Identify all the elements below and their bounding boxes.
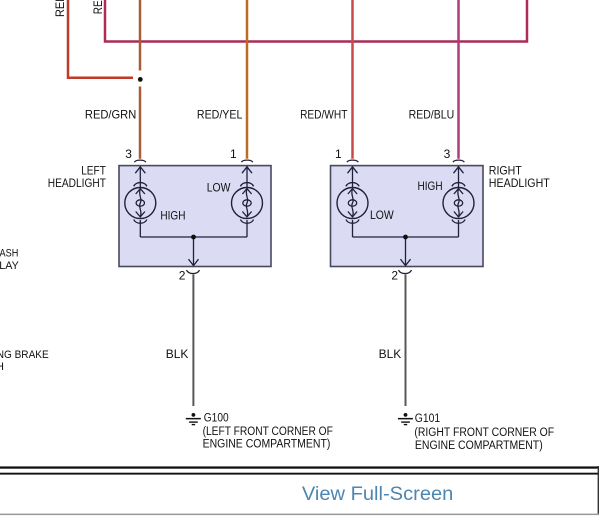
svg-text:RED: RED [91, 0, 105, 14]
svg-text:ASH: ASH [0, 247, 18, 259]
svg-text:HIGH: HIGH [160, 209, 185, 223]
svg-text:(LEFT FRONT CORNER OF: (LEFT FRONT CORNER OF [203, 426, 333, 438]
svg-text:1: 1 [230, 147, 237, 161]
svg-text:3: 3 [125, 147, 132, 161]
svg-text:RED/GRN: RED/GRN [85, 108, 136, 122]
svg-text:3: 3 [444, 147, 451, 161]
svg-text:H: H [0, 361, 4, 373]
svg-text:ENGINE COMPARTMENT): ENGINE COMPARTMENT) [203, 438, 331, 450]
svg-text:1: 1 [335, 147, 342, 161]
svg-text:HEADLIGHT: HEADLIGHT [489, 176, 551, 190]
svg-text:LOW: LOW [370, 208, 394, 222]
svg-text:RED: RED [53, 0, 67, 17]
svg-text:RED/YEL: RED/YEL [197, 108, 243, 122]
svg-text:(RIGHT FRONT CORNER OF: (RIGHT FRONT CORNER OF [414, 427, 554, 439]
svg-text:LAY: LAY [0, 260, 19, 272]
svg-text:NG BRAKE: NG BRAKE [0, 349, 49, 361]
svg-text:RED/BLU: RED/BLU [409, 108, 455, 122]
svg-text:ENGINE COMPARTMENT): ENGINE COMPARTMENT) [415, 440, 543, 452]
svg-text:LOW: LOW [207, 181, 231, 195]
svg-text:BLK: BLK [379, 347, 402, 361]
svg-text:2: 2 [391, 269, 398, 283]
svg-text:BLK: BLK [166, 347, 189, 361]
svg-text:HIGH: HIGH [418, 179, 443, 193]
svg-text:2: 2 [179, 269, 186, 283]
svg-text:G101: G101 [415, 413, 440, 425]
svg-text:View Full-Screen: View Full-Screen [302, 484, 454, 505]
svg-text:G100: G100 [204, 413, 229, 425]
svg-text:RED/WHT: RED/WHT [300, 108, 348, 122]
svg-text:HEADLIGHT: HEADLIGHT [48, 176, 107, 190]
